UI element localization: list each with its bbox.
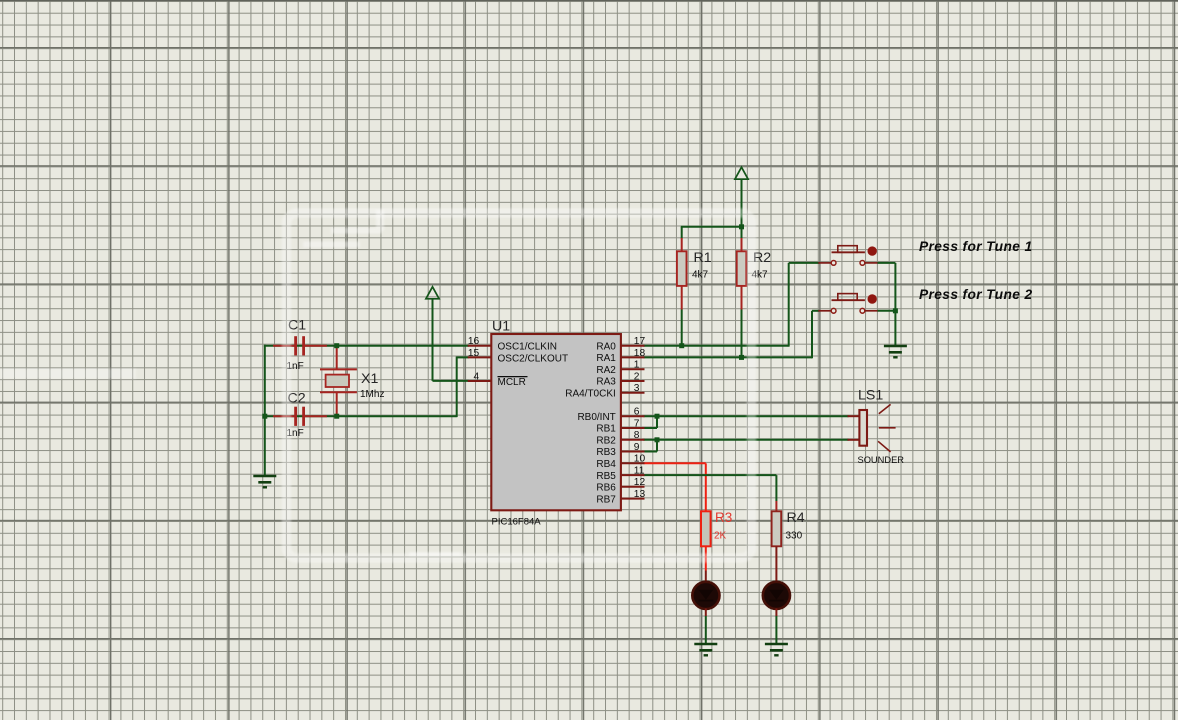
led D2 bottom lead [775, 609, 777, 617]
svg-text:11: 11 [634, 466, 645, 477]
svg-text:MCLR: MCLR [498, 377, 526, 388]
led D1 top lead [705, 571, 707, 583]
svg-text:RA4/T0CKI: RA4/T0CKI [565, 388, 616, 399]
capacitor C2 leads [273, 415, 296, 417]
wire RB0/RB1 bridge [656, 416, 658, 428]
wire top branch to R1 [681, 226, 742, 228]
svg-text:R3: R3 [715, 510, 732, 525]
svg-text:10: 10 [634, 454, 646, 465]
wire RB5 row [644, 474, 777, 476]
power arrow VDD (MCLR) [426, 287, 439, 299]
svg-text:RA1: RA1 [596, 353, 616, 364]
right pin numbers [634, 336, 646, 500]
wire RB4 row (highlighted) [644, 462, 706, 464]
wire C1 row to pin16 [264, 345, 469, 347]
wire LED1 to ground [705, 616, 707, 644]
power arrow VDD (R1/R2) [735, 167, 748, 179]
svg-text:16: 16 [468, 336, 480, 347]
wire to switch 2 left [812, 310, 819, 312]
svg-text:6: 6 [634, 407, 640, 418]
svg-text:2K: 2K [714, 531, 727, 542]
svg-text:OSC1/CLKIN: OSC1/CLKIN [498, 342, 557, 353]
svg-text:RB2: RB2 [596, 436, 616, 447]
wire power to R2 [741, 179, 743, 228]
ghost smudge top text rows [303, 210, 461, 556]
svg-text:1Mhz: 1Mhz [360, 389, 384, 400]
svg-text:RB6: RB6 [596, 483, 616, 494]
svg-text:RB7: RB7 [596, 494, 616, 505]
wire RB4 drop to R3 (highlighted) [705, 463, 707, 511]
wire switch 1 right drop [878, 262, 896, 264]
wire to pin4 [433, 380, 469, 382]
wire RA1 row [644, 356, 813, 358]
svg-text:330: 330 [786, 531, 803, 542]
wire MCLR power drop [432, 298, 434, 381]
ghost smudge left edge [0, 369, 136, 380]
pins 16,15,4 left stubs [468, 346, 492, 381]
wire RA0 riser to switch 1 [788, 263, 790, 347]
wire OSC2 riser vertical [456, 357, 458, 418]
resistor R1 body [677, 251, 687, 286]
wire RB1 row [644, 427, 658, 429]
svg-text:1: 1 [634, 360, 640, 371]
wire C2 row to OSC2 riser [264, 415, 457, 417]
crystal X1 electrode lines [320, 368, 357, 370]
svg-text:RA2: RA2 [596, 365, 616, 376]
svg-text:LS1: LS1 [858, 388, 883, 404]
wire left rail vertical [264, 345, 266, 476]
svg-text:2: 2 [634, 371, 640, 382]
node C2/X1 bottom junction [334, 414, 339, 419]
node RB0 junction [655, 414, 660, 419]
led D1 [692, 582, 719, 609]
crystal X1 body [326, 375, 349, 387]
resistor R2 body [737, 251, 747, 286]
svg-text:RB4: RB4 [596, 459, 616, 470]
capacitor C1 plates [294, 336, 297, 355]
svg-text:8: 8 [634, 430, 640, 441]
node RB2 junction [655, 437, 660, 442]
wire RB3 row [644, 451, 658, 453]
wire RB0 row to sounder [644, 415, 849, 417]
wire pin15 row [457, 356, 469, 358]
resistor R1 top lead [681, 227, 683, 239]
led D1 bottom lead [705, 609, 707, 617]
ghost overlay rounded frame [287, 213, 752, 558]
right pin stubs [621, 346, 645, 499]
svg-text:SOUNDER: SOUNDER [858, 455, 905, 465]
wire RA0 row [644, 345, 789, 347]
push button switch 2 [818, 294, 877, 314]
wire R4 to LED2 [775, 546, 777, 582]
pin numbers 16,15,4 [468, 336, 480, 382]
wire switch 2 right [878, 310, 896, 312]
svg-text:4: 4 [474, 371, 480, 382]
wire RB2/RB3 bridge [656, 440, 658, 452]
resistor R4 top lead [775, 501, 777, 511]
svg-text:U1: U1 [492, 319, 510, 335]
svg-text:3: 3 [634, 383, 640, 394]
svg-text:15: 15 [468, 348, 480, 359]
node switches junction [893, 308, 898, 313]
ground GND2 (switches) [884, 346, 907, 357]
node left rail / C2 junction [262, 414, 267, 419]
resistor R2 bottom lead [741, 286, 743, 310]
wire R3 to LED1 (highlighted) [705, 546, 707, 570]
resistor R3 body (highlighted) [701, 511, 711, 546]
ground GND3 (LED1) [694, 644, 717, 655]
capacitor C2 plates [294, 407, 297, 426]
wire RB5 drop to R4 [775, 475, 777, 501]
svg-text:RA0: RA0 [596, 341, 616, 352]
svg-text:12: 12 [634, 477, 646, 488]
right pin labels RA0..RB7 [565, 341, 616, 505]
svg-text:R1: R1 [694, 250, 712, 266]
svg-text:17: 17 [634, 336, 646, 347]
svg-text:7: 7 [634, 418, 640, 429]
op chip U1 body [491, 334, 621, 510]
svg-text:Press for Tune 2: Press for Tune 2 [919, 287, 1032, 302]
svg-text:RB0/INT: RB0/INT [577, 412, 615, 423]
node R1/RA0 junction [679, 343, 684, 348]
svg-text:RA3: RA3 [596, 377, 616, 388]
svg-text:RB5: RB5 [596, 471, 616, 482]
svg-text:R4: R4 [787, 510, 805, 526]
push button switch 1 [818, 246, 877, 266]
wire RB2 row to sounder [644, 439, 849, 441]
node C1/X1 top junction [334, 343, 339, 348]
pin labels OSC1/CLKIN OSC2/CLKOUT MCLR [498, 342, 569, 388]
wire to switch 1 left [789, 262, 820, 264]
capacitor C1 leads [273, 345, 296, 347]
svg-text:4k7: 4k7 [692, 270, 709, 281]
svg-text:13: 13 [634, 489, 646, 500]
svg-text:18: 18 [634, 348, 646, 359]
node R2/RA1 junction [739, 355, 744, 360]
svg-text:OSC2/CLKOUT: OSC2/CLKOUT [498, 353, 569, 364]
resistor R4 body [772, 511, 782, 546]
ground GND1 (left rail) [253, 476, 276, 487]
svg-text:Press for Tune 1: Press for Tune 1 [919, 239, 1032, 254]
resistor R1 bottom lead [681, 286, 683, 310]
wire RA1 riser to switch 2 [811, 311, 813, 359]
led D2 [763, 582, 790, 609]
svg-text:RB3: RB3 [596, 447, 616, 458]
svg-text:9: 9 [634, 442, 640, 453]
wire R1 to RA0 net [681, 310, 683, 346]
ground GND4 (LED2) [765, 644, 788, 655]
wire R2 to RA1 net [741, 310, 743, 358]
resistor R2 top lead [741, 227, 743, 239]
svg-text:X1: X1 [361, 371, 378, 387]
node power/R1/R2 junction [739, 224, 744, 229]
sounder LS1 sound waves [879, 404, 891, 413]
crystal X1 leads [336, 346, 338, 370]
sounder LS1 body [859, 410, 867, 446]
svg-text:PIC16F84A: PIC16F84A [492, 517, 542, 528]
wire LED2 to ground [775, 616, 777, 644]
sounder LS1 leads [848, 415, 860, 417]
svg-text:RB1: RB1 [596, 424, 616, 435]
